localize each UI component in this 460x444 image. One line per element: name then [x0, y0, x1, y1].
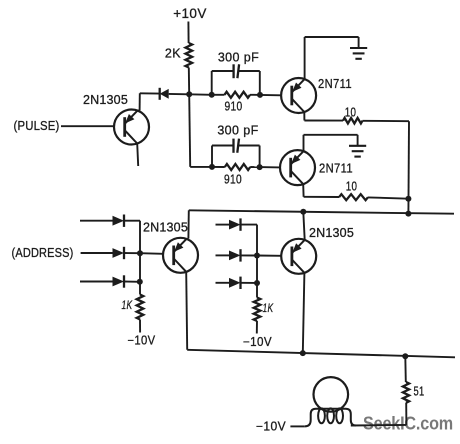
svg-text:1K: 1K: [122, 298, 133, 312]
+10V supply label: [173, 6, 207, 21]
resistor R3 10: [343, 106, 363, 124]
transistor Q3 2N711: [280, 150, 315, 185]
junction left of R4: [209, 164, 215, 170]
diode D3: [113, 247, 125, 259]
wire address input row 2: [81, 252, 113, 254]
wire Q2 emitter to ground G1: [305, 37, 359, 79]
wire Q5 collector down to bottom line: [303, 273, 305, 353]
node A junction: [186, 91, 192, 97]
label Q4 2N1305: [143, 221, 188, 235]
svg-text:910: 910: [224, 173, 242, 187]
junction R5 / right bus: [405, 196, 411, 202]
wire R3 to right bus: [363, 120, 410, 122]
wire rail corner to C2/R4 network: [190, 166, 212, 168]
svg-text:+10V: +10V: [173, 6, 207, 21]
svg-text:10: 10: [346, 180, 358, 194]
wire Q4 collector down to bottom line: [186, 272, 187, 350]
transistor Q2 2N711: [281, 78, 316, 113]
svg-text:300 pF: 300 pF: [217, 124, 258, 138]
junction rail1 row2: [137, 250, 143, 256]
wire R7 to -10V: [256, 321, 258, 334]
output line (middle horizontal): [189, 210, 454, 213]
wire gate2 input row 2: [216, 254, 230, 256]
wire +10V to R1: [187, 22, 189, 44]
wire D1 to node A: [169, 93, 190, 95]
core winding loops: [305, 408, 356, 426]
diode D1 (cathode left): [160, 88, 169, 100]
label (PULSE) input: [14, 119, 60, 133]
svg-text:−10V: −10V: [243, 335, 272, 349]
diode D5: [229, 218, 241, 230]
transistor Q1 2N1305: [114, 110, 149, 145]
svg-text:−10V: −10V: [128, 334, 156, 348]
diode D4: [113, 275, 125, 287]
wire D4 to rail: [124, 281, 140, 283]
transistor Q4 2N1305: [163, 238, 198, 273]
resistor R4 910: [212, 164, 260, 187]
label Q2 2N711: [318, 77, 352, 91]
junction Q5 / output line: [300, 209, 306, 215]
diode D6: [229, 249, 241, 261]
diode D2: [113, 215, 125, 227]
svg-text:SeekIC.com: SeekIC.com: [363, 413, 453, 434]
diode D7: [229, 277, 241, 289]
svg-text:2N711: 2N711: [319, 162, 353, 176]
watermark SeekIC.com: [363, 413, 453, 434]
wire node A to C1/R2 network: [189, 93, 212, 96]
transistor Q5 2N1305: [281, 239, 316, 274]
junction bottom line / R8 branch: [402, 353, 408, 359]
wire D7 to rail2: [241, 282, 258, 284]
wire Q4 emitter to output line: [187, 210, 189, 238]
label (ADDRESS) input: [12, 246, 74, 260]
label -10V (rail 2): [243, 335, 272, 349]
wire Q2 collector to R3: [304, 112, 343, 121]
wire D3 to rail: [124, 252, 140, 254]
wire gate2 input row 1: [216, 224, 230, 226]
wire D6 to rail2: [241, 254, 258, 256]
svg-text:2K: 2K: [165, 47, 181, 61]
resistor R2 910: [212, 92, 260, 114]
svg-text:910: 910: [225, 100, 243, 114]
diode rail 2 vertical: [256, 225, 258, 298]
junction Q5 collector / bottom line: [300, 350, 306, 356]
svg-text:1K: 1K: [263, 301, 274, 315]
svg-text:2N711: 2N711: [318, 77, 352, 91]
wire address input row 1: [80, 220, 113, 222]
wire node A down to lower gate rail: [189, 94, 190, 167]
wire Q3 emitter to ground G2: [304, 135, 358, 151]
ground G1: [350, 37, 367, 59]
diode rail 1 vertical: [139, 221, 141, 295]
svg-text:300 pF: 300 pF: [218, 51, 259, 65]
label Q5 2N1305: [309, 226, 354, 240]
resistor R8 51: [403, 382, 425, 403]
wire R1 to node A: [188, 68, 190, 95]
wire D2 to rail corner: [124, 220, 140, 222]
junction right bus / output line: [405, 211, 411, 217]
junction left of R2: [209, 92, 215, 98]
svg-text:51: 51: [414, 385, 425, 399]
svg-text:2N1305: 2N1305: [83, 93, 128, 107]
wire Q5 emitter up to output line: [303, 212, 304, 240]
svg-text:(ADDRESS): (ADDRESS): [12, 246, 74, 260]
wire core winding right leg to R8 branch: [351, 424, 407, 427]
svg-text:(PULSE): (PULSE): [14, 119, 60, 133]
wire bottom line to R8: [404, 356, 407, 382]
junction rail1 row3: [137, 279, 143, 285]
wire rail2 row2 to Q5 base: [257, 255, 281, 257]
bottom line (long horizontal): [187, 350, 455, 358]
wire rail1 row2 to Q4 base: [140, 252, 163, 255]
junction right of R4: [257, 164, 263, 170]
resistor R1 2K: [165, 43, 192, 68]
wire gate2 input row 3: [216, 282, 230, 284]
junction rail2 row2: [254, 253, 260, 259]
capacitor C1 300 pF: [212, 51, 260, 95]
magnetic core L1 (toroid bead): [314, 377, 349, 412]
resistor R7 1K: [254, 298, 274, 322]
wire address input row 3: [80, 281, 113, 283]
wire -10V to core winding left leg: [290, 425, 304, 427]
resistor R6 1K: [122, 295, 144, 320]
wire Q1 emitter up to diode D1: [138, 93, 160, 110]
junction right of R2: [257, 92, 263, 98]
wire R5 to right bus: [368, 197, 408, 198]
label -10V (core): [256, 420, 286, 434]
wire R8 down to core winding: [405, 403, 407, 425]
svg-text:−10V: −10V: [256, 420, 286, 434]
wire D5 to rail2 corner: [241, 224, 258, 226]
label -10V (rail 1): [128, 334, 156, 348]
wire Q3 collector to R5: [303, 184, 339, 197]
junction rail2 row3: [254, 280, 260, 286]
resistor R5 10: [339, 180, 368, 201]
svg-text:2N1305: 2N1305: [309, 226, 354, 240]
svg-text:2N1305: 2N1305: [143, 221, 188, 235]
label Q3 2N711: [319, 162, 353, 176]
wire R6 to -10V: [139, 320, 141, 333]
wire Q1 collector stub down: [137, 144, 138, 167]
right bus vertical wire: [407, 121, 410, 213]
svg-text:10: 10: [345, 106, 357, 120]
wire R4 to Q3 base: [260, 166, 281, 168]
capacitor C2 300 pF: [212, 124, 260, 168]
ground G2: [349, 135, 366, 157]
wire PULSE to Q1 base: [61, 125, 114, 127]
wire R2 to Q2 base: [260, 94, 281, 96]
label Q1 2N1305: [83, 93, 128, 107]
